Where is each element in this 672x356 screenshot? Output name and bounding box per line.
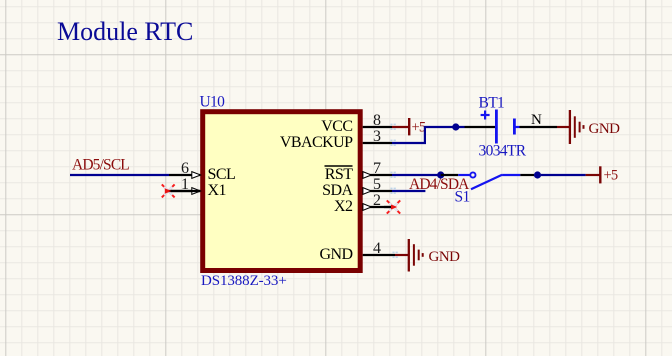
svg-text:GND: GND <box>319 246 352 263</box>
svg-text:X1: X1 <box>208 182 227 199</box>
pin 8 VCC <box>321 112 392 135</box>
svg-text:S1: S1 <box>455 189 470 206</box>
svg-text:AD5/SCL: AD5/SCL <box>72 156 129 173</box>
connection marker pin 3 <box>391 140 396 146</box>
svg-text:+5: +5 <box>412 120 426 136</box>
svg-text:DS1388Z-33+: DS1388Z-33+ <box>201 273 287 289</box>
svg-text:5: 5 <box>373 176 381 193</box>
power ground GND at pin 4 <box>395 239 460 272</box>
junction at battery feed <box>452 123 459 130</box>
wire AD5/SCL to pin 6 <box>70 174 169 176</box>
power ground GND top <box>557 110 620 144</box>
svg-text:+5: +5 <box>604 168 618 184</box>
pin 2 X2 <box>334 192 392 215</box>
wire pin 5 SDA stub <box>392 190 425 192</box>
svg-text:3034TR: 3034TR <box>479 143 527 160</box>
wire pin 7 RST to switch <box>392 174 441 176</box>
pin 1 X1 <box>169 176 227 199</box>
connection marker pin 8 <box>391 124 396 130</box>
connection marker pin 4 <box>393 252 398 258</box>
svg-text:VCC: VCC <box>321 118 352 135</box>
svg-text:BT1: BT1 <box>479 95 505 112</box>
pin 4 GND <box>319 240 395 263</box>
svg-text:N: N <box>531 112 542 128</box>
no-ERC marker at pin 1 X1 <box>162 184 200 197</box>
svg-text:6: 6 <box>181 160 189 177</box>
junction at switch left <box>437 171 444 178</box>
power port +5 at pin 8 <box>392 118 426 136</box>
svg-text:GND: GND <box>429 249 461 265</box>
svg-text:VBACKUP: VBACKUP <box>280 134 353 151</box>
switch S1 <box>441 172 534 189</box>
battery BT1 <box>465 110 558 144</box>
svg-text:RST: RST <box>325 166 353 183</box>
svg-text:X2: X2 <box>334 198 353 215</box>
pin 6 SCL <box>169 160 235 183</box>
svg-text:8: 8 <box>373 112 381 129</box>
svg-text:SDA: SDA <box>322 182 353 199</box>
svg-text:U10: U10 <box>200 93 226 110</box>
pin 7 RST <box>325 160 393 183</box>
no-ERC marker at pin 2 X2 <box>384 200 400 213</box>
junction at switch right <box>534 171 541 178</box>
svg-text:3: 3 <box>373 128 381 145</box>
wire pin 3 VBACKUP net <box>392 127 465 143</box>
connection marker pin 7 <box>391 172 396 178</box>
connection marker pin 5 <box>391 188 396 194</box>
svg-text:7: 7 <box>373 160 381 177</box>
svg-text:2: 2 <box>373 192 381 209</box>
pin 5 SDA <box>322 176 392 199</box>
IC U10 body <box>203 112 361 271</box>
svg-text:4: 4 <box>373 240 381 257</box>
pin 3 VBACKUP <box>280 128 392 151</box>
svg-text:SCL: SCL <box>208 166 236 183</box>
svg-text:GND: GND <box>589 121 621 137</box>
power port +5 right <box>586 166 618 183</box>
svg-text:Module RTC: Module RTC <box>57 17 193 46</box>
wire switch to +5 <box>541 174 586 176</box>
